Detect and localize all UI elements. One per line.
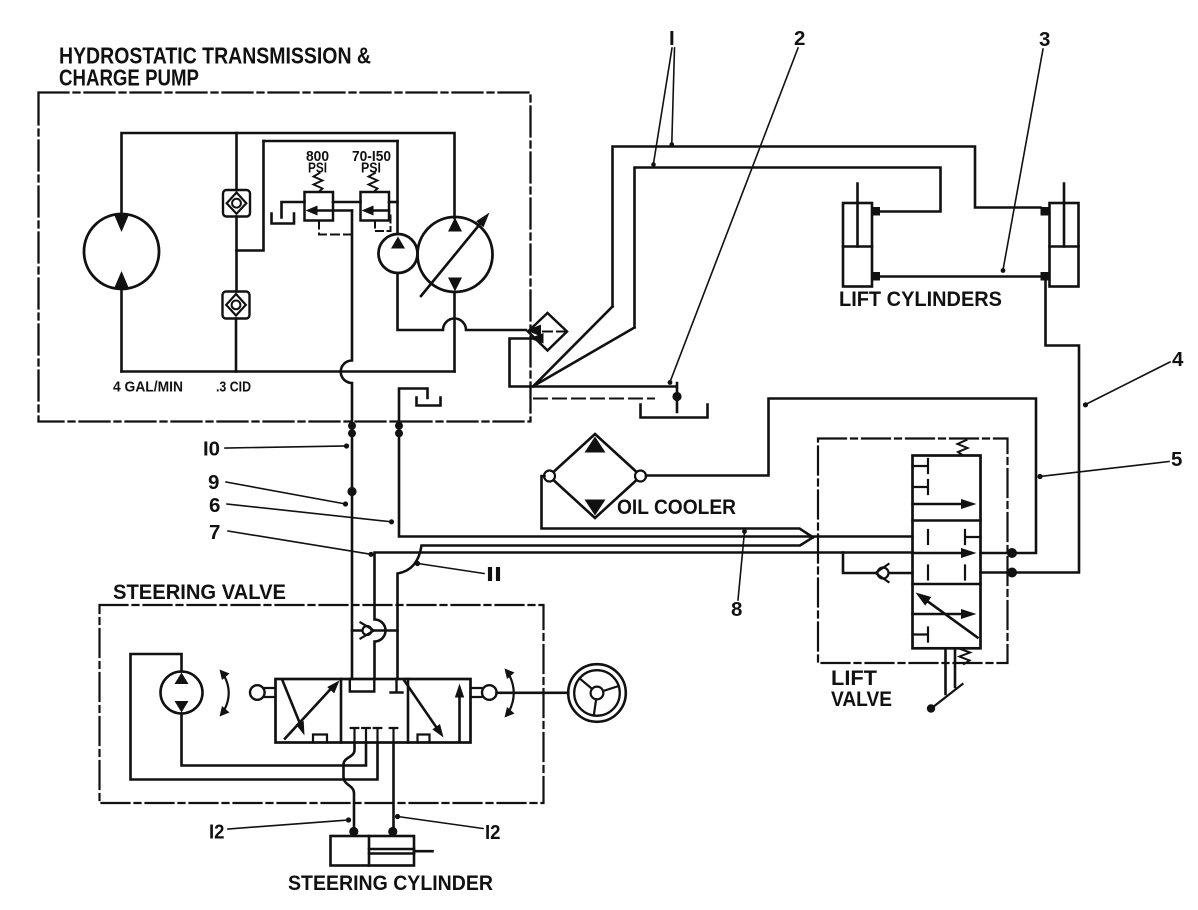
pilot line RV2 (dashed) [375, 212, 391, 231]
port mark block1 row1 [913, 459, 929, 473]
port left cylinder bottom [872, 272, 881, 281]
knob dot [927, 704, 935, 712]
svg-text:8: 8 [731, 598, 742, 621]
pipe oil cooler inlet (upper merge line) [542, 476, 814, 537]
label LIFT VALVE [831, 666, 892, 711]
steering wheel spokes [580, 678, 619, 715]
steering valve divider 2 [407, 679, 410, 743]
spring relief valve RV2 [369, 173, 378, 192]
pin circle right [482, 685, 497, 700]
label .3 CID [216, 379, 251, 396]
arrow right envelope vertical (up) [458, 697, 461, 742]
pipe 4 (right cylinder to lift valve B) [981, 281, 1080, 573]
wire RV1 drain to tank T1 [282, 202, 305, 218]
piston right cylinder [1050, 245, 1079, 248]
svg-text:2: 2 [794, 27, 805, 50]
leader 6 [227, 504, 392, 522]
leader 9 [226, 482, 346, 504]
lift valve divider 2 [913, 583, 981, 586]
pipe 1 inner (pump to left lift cylinder) [635, 168, 941, 328]
label 11 [486, 563, 502, 586]
svg-text:PSI: PSI [361, 160, 381, 177]
coupler dot left [349, 827, 358, 836]
drain line (dashed) [534, 398, 654, 400]
label STEERING CYLINDER [288, 871, 493, 895]
leader 11 [418, 564, 484, 574]
lift valve enclosure (chain line) [818, 439, 1008, 664]
leader 10 [225, 446, 347, 448]
leader 12 left [228, 820, 349, 829]
pipe 6 return (middle line to lift valve) [399, 422, 913, 537]
label 70-150 PSI [352, 148, 391, 177]
pipe 7 (charge supply to lift valve and steering) [375, 553, 913, 680]
wire below CV2 to sump bus [235, 319, 238, 372]
charge pump CP (circle) [379, 234, 418, 273]
rotation arc right [509, 675, 514, 712]
spring relief valve RV1 [314, 173, 323, 192]
rotation arc left [224, 676, 229, 711]
piston left cylinder [843, 245, 872, 248]
svg-text:I2: I2 [485, 821, 501, 844]
port left cylinder top [872, 207, 881, 216]
arrow pump P1 bottom port (down) [448, 278, 462, 292]
wire gerotor top loop to port 3 [131, 654, 378, 780]
wire charge line to steering valve [351, 437, 354, 679]
arrow block3 diagonal (up-left) [925, 600, 978, 638]
leader 4 [1086, 362, 1171, 405]
arrow block2 flow (right) [913, 552, 967, 555]
title HYDROSTATIC TRANSMISSION & CHARGE PUMP [59, 43, 371, 91]
svg-text:CHARGE PUMP: CHARGE PUMP [59, 65, 199, 91]
label 3 [1039, 28, 1050, 51]
motor M1 (hydrostatic motor circle) [84, 214, 159, 289]
arrow motor top port (down) [114, 215, 129, 233]
wire gerotor bottom to port 2 [182, 714, 367, 766]
arrow RV2 internal (left) [372, 209, 389, 212]
label 9 [208, 471, 219, 494]
tank T3 [641, 405, 708, 418]
port mark block1 row2 [913, 480, 929, 494]
svg-text:LIFT CYLINDERS: LIFT CYLINDERS [839, 287, 1002, 311]
svg-text:STEERING VALVE: STEERING VALVE [113, 580, 286, 604]
port mark block2 right row2 [964, 566, 966, 580]
arrow gerotor top (up) [175, 673, 189, 685]
pilot line RV1 (dashed) [319, 221, 351, 235]
check valve CV4 [363, 626, 372, 635]
check valve CV3 [878, 568, 889, 579]
port mark block3 left [913, 628, 929, 642]
svg-text:I0: I0 [203, 438, 220, 461]
pipe 12 left (S-bend to steering cylinder) [344, 743, 355, 828]
port right cylinder bottom [1041, 272, 1050, 281]
steering valve body [276, 679, 471, 743]
label 800 PSI [306, 148, 329, 177]
relief valve RV1 (800 PSI square) [305, 192, 334, 221]
wire charge pump suction to filter [398, 273, 527, 330]
variable displacement pump P1 (circle) [418, 217, 493, 292]
label 7 [209, 521, 220, 544]
wire inner bus left drop to check column [237, 141, 264, 251]
steering valve divider 1 [340, 679, 343, 743]
leader 7 [228, 531, 371, 554]
pin link steering valve right [471, 688, 482, 697]
wire return diagonal from outer pipe [534, 307, 613, 387]
junction dot lift valve P [1007, 548, 1017, 558]
center envelope U pocket [350, 679, 375, 692]
coupler dots on return line [395, 422, 403, 430]
svg-text:3: 3 [1039, 28, 1050, 51]
steering wheel rim [568, 664, 626, 722]
wire pump P1 bottom column [453, 292, 456, 372]
arrow right envelope diagonal (down-right) [404, 680, 438, 730]
leader 8 [738, 532, 745, 601]
arrow motor bottom port (up) [114, 271, 129, 289]
leader 1 [654, 48, 675, 164]
svg-text:OIL COOLER: OIL COOLER [617, 495, 736, 519]
label LIFT CYLINDERS [839, 287, 1002, 311]
arrow block3 flow (right) [913, 613, 967, 616]
gerotor metering pump circle [161, 672, 203, 714]
port ring oil cooler right [635, 471, 646, 482]
wire outer top bus (motor top to pump top) [122, 133, 455, 218]
svg-text:STEERING CYLINDER: STEERING CYLINDER [288, 871, 493, 895]
svg-text:6: 6 [209, 494, 220, 517]
relief valve RV2 (70-150 PSI square) [361, 192, 390, 221]
svg-text:.3 CID: .3 CID [216, 379, 251, 396]
svg-text:I: I [669, 27, 675, 50]
svg-text:5: 5 [1171, 448, 1182, 471]
wire return diagonal from inner pipe [534, 328, 635, 387]
wire motor bottom to sump bus [120, 289, 123, 372]
pipe 12 right [392, 743, 395, 828]
wire relief tap to charge line [333, 209, 352, 212]
junction dot tank stub [672, 392, 681, 401]
arrow into transmission (filter flow) [527, 325, 542, 337]
leader 12 right [398, 817, 484, 829]
wire manifold to tank T3 [533, 383, 677, 412]
spring lift valve top [958, 440, 968, 456]
manifold bracket below filter [510, 339, 534, 387]
center envelope blocked port [391, 679, 403, 693]
bottom port stub 1 [351, 728, 359, 743]
pin circle left [250, 685, 265, 700]
port mark block2 left row1 [927, 530, 929, 544]
label 6 [209, 494, 220, 517]
arrow into transmission (return flow) [529, 333, 544, 344]
svg-text:II: II [486, 563, 502, 586]
label 12 right [485, 821, 501, 844]
steering wheel hub [591, 687, 604, 700]
wire RV1-RV2 link [333, 201, 361, 204]
leader 5 [1040, 462, 1169, 477]
svg-text:I2: I2 [209, 821, 225, 844]
filter F1 (diamond strainer) [528, 313, 567, 351]
coupler dot right [388, 827, 397, 836]
junction dot fitting 9 [347, 487, 356, 496]
lift cylinder right body [1050, 203, 1079, 287]
wire check column top [235, 133, 238, 190]
arrow left envelope diagonal (up-right) [285, 687, 333, 739]
label 10 [203, 438, 220, 461]
steering cylinder rod [369, 849, 433, 854]
wire bottom sump bus [122, 370, 455, 373]
arrow pump P1 top port (up) [448, 218, 462, 232]
arrow gerotor bottom (down) [175, 701, 189, 713]
label 4 GAL/MIN [113, 379, 183, 396]
label 1 [669, 27, 675, 50]
drain notch left envelope [313, 735, 327, 743]
tank T2 [417, 398, 441, 406]
junction dot lift valve B [1007, 568, 1017, 578]
pipe 3 (cylinder bottoms link) [880, 275, 1041, 278]
wire RV2 outlet to charge column [389, 201, 398, 204]
label 4 [1172, 348, 1184, 371]
leader 3 [1003, 49, 1043, 270]
wire charge pump column top [396, 141, 399, 234]
arrow block1 flow (right) [913, 503, 967, 506]
oil cooler diamond [549, 434, 641, 518]
wire inner top bus [264, 140, 398, 143]
leader 2 [670, 48, 798, 382]
arrow oil cooler top [585, 437, 606, 453]
rod right cylinder [1063, 184, 1066, 247]
svg-text:VALVE: VALVE [831, 687, 892, 711]
port ring oil cooler left [544, 471, 555, 482]
svg-text:4 GAL/MIN: 4 GAL/MIN [113, 379, 183, 396]
arrow RV1 internal (left) [316, 209, 333, 212]
tank T1 [272, 214, 295, 224]
steering valve enclosure (chain line) [100, 605, 544, 803]
svg-text:4: 4 [1172, 348, 1184, 371]
lever handle [933, 684, 963, 708]
filter element (dashed) [529, 331, 566, 333]
pipe 11 (steering return, lower merge line) [398, 537, 814, 679]
lift valve body [913, 456, 981, 649]
drain notch right envelope [418, 735, 430, 743]
lift valve divider 1 [913, 519, 981, 522]
check valve CV1 (square) [223, 190, 250, 217]
wire between check valves [235, 217, 238, 292]
bottom port stub 2 [362, 728, 370, 743]
svg-text:9: 9 [208, 471, 219, 494]
arrow left envelope cross (down) [283, 681, 303, 729]
lift cylinder left body [843, 203, 872, 287]
arrow pump P1 variable stroke (diagonal) [421, 222, 482, 297]
pipe 5 (oil cooler out to lift valve P, big loop) [646, 399, 1036, 554]
pin link steering valve left [265, 688, 276, 697]
spring lift valve bottom [960, 649, 971, 664]
return drain inside box to tank T2 [399, 389, 428, 422]
label OIL COOLER [617, 495, 736, 519]
bottom port stub 3 [374, 728, 382, 743]
label STEERING VALVE [113, 580, 286, 604]
label 2 [794, 27, 805, 50]
label 5 [1171, 448, 1182, 471]
rod left cylinder [856, 184, 859, 247]
arrow oil cooler bottom [585, 500, 606, 516]
check valve CV2 (square) [223, 292, 250, 319]
label 8 [731, 598, 742, 621]
svg-text:7: 7 [209, 521, 220, 544]
arrow charge pump outlet (up) [391, 237, 405, 249]
steering wheel shaft [497, 691, 569, 694]
wire charge line x352 (with hop over sump bus) [341, 211, 352, 422]
check valve CV4 line (steering) [352, 629, 398, 632]
bottom port stub 4 [390, 728, 398, 743]
port mark block2 right row1 [965, 530, 981, 544]
label 12 left [209, 821, 225, 844]
coupler dots on charge line [348, 422, 356, 430]
lever stem lift valve [946, 648, 956, 694]
pipe 1 outer (pump to right lift cylinder) [613, 147, 1041, 307]
port right cylinder top [1041, 207, 1050, 216]
steering cylinder body [331, 836, 415, 866]
check valve CV3 branch [843, 553, 913, 574]
steering cylinder piston [368, 836, 371, 866]
enclosure hydrostatic transmission box (chain line) [39, 93, 531, 422]
port mark block2 left row2 [927, 566, 929, 580]
